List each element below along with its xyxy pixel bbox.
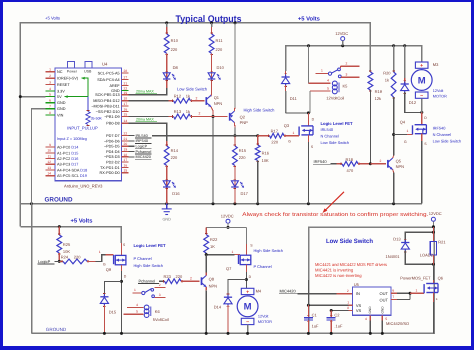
svg-text:1: 1: [49, 68, 51, 72]
pin 22 GND: [121, 90, 128, 92]
svg-text:GND: GND: [380, 306, 384, 314]
svg-text:D14: D14: [214, 305, 222, 310]
svg-text:NPN: NPN: [209, 283, 218, 288]
led D17: [234, 178, 237, 180]
wire Q9 drain to D15: [104, 281, 121, 296]
svg-text:A4-PC4-SDA D18: A4-PC4-SDA D18: [57, 168, 87, 172]
svg-text:IRF540: IRF540: [433, 125, 447, 130]
svg-text:IRF540: IRF540: [314, 159, 328, 164]
svg-text:D11: D11: [290, 96, 298, 101]
wire Q3 source to ground rail: [307, 142, 309, 204]
svg-text:220: 220: [176, 274, 183, 279]
pin 1 NC: [46, 71, 55, 73]
svg-text:Pchannel: Pchannel: [136, 150, 152, 154]
svg-text:MIC4421 and MIC4422 MOS FET dr: MIC4421 and MIC4422 MOS FET drivers: [315, 262, 387, 267]
pin 6 GND: [46, 102, 55, 104]
wire Q9 drain down: [121, 265, 123, 271]
svg-text:1: 1: [293, 131, 295, 135]
svg-text:.1uF: .1uF: [334, 323, 343, 328]
svg-text:RX-PD0-D0: RX-PD0-D0: [100, 171, 120, 175]
svg-text:Q4: Q4: [400, 119, 406, 124]
resistor R12: [172, 99, 174, 102]
svg-text:R22: R22: [210, 237, 218, 242]
svg-text:MIC4420/SO: MIC4420/SO: [386, 321, 409, 326]
svg-text:IRL540: IRL540: [321, 127, 334, 132]
wire R18 to Q5 base: [358, 163, 370, 165]
svg-text:N Channel: N Channel: [433, 132, 452, 137]
pin 19 PD4-D4: [121, 151, 128, 153]
resistor R22: [205, 227, 207, 234]
pin 5 5V: [46, 96, 55, 98]
svg-text:+5 Volts: +5 Volts: [45, 15, 60, 20]
wire R12 to Q1 base: [191, 100, 205, 102]
svg-text:4: 4: [365, 317, 367, 321]
svg-text:G: G: [288, 139, 291, 143]
wire R25 to LogicP node: [58, 253, 60, 261]
svg-text:12VDC: 12VDC: [335, 31, 348, 36]
connector USB tab: [85, 61, 92, 68]
svg-text:12VoltCoil: 12VoltCoil: [326, 96, 344, 101]
svg-text:16: 16: [124, 108, 128, 112]
svg-text:4: 4: [49, 87, 51, 91]
node net label IRF540: [128, 140, 134, 142]
wire Q7 drain to D14: [228, 280, 246, 298]
svg-text:1N4001: 1N4001: [386, 254, 401, 259]
svg-text:5: 5: [49, 92, 51, 96]
svg-text:~PD6-D6: ~PD6-D6: [104, 139, 120, 143]
svg-text:SCL-PC5-A5: SCL-PC5-A5: [98, 71, 120, 75]
svg-text:R21: R21: [438, 240, 446, 245]
wire IRL540 net to R17 and Q3 gate: [152, 135, 258, 137]
wire Q7 drain down: [245, 265, 247, 272]
pin 3 RESET: [46, 84, 55, 86]
wire ground rail: [20, 203, 422, 205]
svg-text:Q1: Q1: [214, 95, 220, 100]
svg-text:R24: R24: [61, 254, 69, 259]
wire R23 to Q8 base: [181, 280, 200, 282]
svg-text:15: 15: [124, 113, 128, 117]
svg-text:M3: M3: [433, 62, 439, 67]
resistor R17: [258, 135, 270, 137]
pin 10 A1-PC1 D15: [46, 152, 55, 154]
pin 21 AREF: [121, 85, 128, 87]
svg-text:R10: R10: [171, 38, 179, 43]
svg-text:GND: GND: [368, 306, 372, 314]
svg-text:AREF: AREF: [109, 84, 120, 88]
svg-text:A2-PC2 D16: A2-PC2 D16: [57, 157, 78, 161]
svg-text:1: 1: [407, 129, 409, 133]
svg-text:High Side Switch: High Side Switch: [254, 248, 283, 253]
svg-text:10: 10: [47, 149, 51, 153]
wire D12 anode to Q4 drain node: [405, 92, 422, 112]
svg-text:18: 18: [124, 97, 128, 101]
wire Q4 gate: [394, 134, 407, 136]
svg-text:MOTOR: MOTOR: [258, 320, 272, 324]
pin 15 ~PB1-D9: [121, 116, 128, 118]
wire arduino gnd pin7 to ground rail: [32, 109, 46, 204]
svg-text:M: M: [418, 75, 426, 86]
svg-text:Low Side Switch: Low Side Switch: [433, 139, 462, 144]
svg-text:12Volt: 12Volt: [258, 314, 270, 318]
svg-text:SCK-PB5-D13: SCK-PB5-D13: [95, 93, 119, 97]
node net label MIC4420: [128, 156, 134, 158]
svg-text:19: 19: [124, 91, 128, 95]
svg-text:+5 Volts: +5 Volts: [71, 218, 93, 225]
svg-text:IRL540: IRL540: [136, 134, 148, 138]
transistor Q5: [388, 158, 393, 170]
svg-text:Q6: Q6: [438, 276, 444, 281]
svg-text:220: 220: [216, 47, 223, 52]
svg-text:1: 1: [347, 300, 349, 304]
svg-text:20ma MAX: 20ma MAX: [136, 89, 154, 93]
svg-text:6: 6: [392, 289, 394, 293]
wire MIC4420 to U5 IN: [298, 293, 337, 295]
wire +5V bottom-left rail: [20, 227, 121, 243]
wire R11 top: [211, 23, 213, 27]
svg-text:Arduino_UNO_REV3: Arduino_UNO_REV3: [64, 183, 103, 188]
svg-text:Q7: Q7: [226, 266, 232, 271]
svg-text:GROUND: GROUND: [46, 327, 67, 332]
wire R15 to D17: [234, 166, 236, 204]
svg-text:~MOSI-PB3-D11: ~MOSI-PB3-D11: [91, 104, 119, 108]
svg-text:Q9: Q9: [106, 267, 112, 272]
svg-text:Input Z = 100Meg: Input Z = 100Meg: [57, 137, 87, 141]
svg-text:High Side Switch: High Side Switch: [134, 263, 163, 268]
svg-text:Pchannel: Pchannel: [139, 278, 156, 283]
svg-text:12Volt: 12Volt: [433, 89, 445, 93]
svg-text:IRF540: IRF540: [136, 139, 148, 143]
pin 18 MISO-PB4-D12: [121, 100, 128, 102]
pin 15 RX-PD0-D0: [121, 172, 128, 174]
svg-text:M: M: [244, 302, 252, 313]
svg-text:3: 3: [159, 293, 161, 297]
wire D13 net to D8: [128, 88, 166, 95]
op-amp U4 Arduino_UNO_REV3 body: [55, 68, 121, 181]
svg-text:3: 3: [49, 80, 51, 84]
wire D10 net to R13: [128, 116, 168, 118]
svg-text:5: 5: [327, 86, 329, 90]
svg-text:−: −: [420, 93, 423, 99]
svg-text:LogicP: LogicP: [38, 259, 51, 264]
svg-text:OUT: OUT: [380, 291, 389, 296]
relay K5 coil: [332, 81, 339, 94]
svg-text:14: 14: [47, 172, 51, 176]
svg-text:Low Side Switch: Low Side Switch: [326, 238, 373, 245]
wire bottom rail ground: [32, 332, 435, 334]
resistor R19: [369, 70, 372, 72]
svg-text:G: G: [404, 140, 407, 144]
svg-text:18: 18: [124, 153, 128, 157]
svg-text:R11: R11: [216, 38, 224, 43]
wire R22 to Q7 gate node: [206, 253, 234, 255]
connector Power tab: [67, 61, 74, 68]
transistor Q8: [202, 275, 207, 287]
wire Q8 collector to gate node: [205, 273, 207, 276]
wire D8 net to R14: [128, 123, 166, 141]
svg-text:PD4-D4: PD4-D4: [106, 150, 120, 154]
svg-text:R15: R15: [239, 148, 247, 153]
svg-text:2: 2: [346, 61, 348, 65]
svg-text:14: 14: [124, 119, 128, 123]
resistor R10: [165, 32, 168, 34]
svg-text:5VoltCoil: 5VoltCoil: [153, 317, 169, 322]
wire U5 OUT pins to Q6 gate: [391, 292, 397, 294]
svg-text:U4: U4: [102, 62, 108, 67]
svg-text:NPN: NPN: [214, 101, 223, 106]
wire M3 minus to Q4 drain: [421, 98, 423, 112]
wire M4 minus to bottom rail: [247, 324, 249, 333]
svg-text:1k: 1k: [385, 78, 389, 83]
svg-text:PD7-D7: PD7-D7: [106, 134, 120, 138]
wire R16 to ground rail: [257, 161, 259, 204]
transistor Q2: [230, 111, 235, 123]
pin 13 A4-PC4-SDA D18: [46, 169, 55, 171]
wire Q2 emitter up to +5V rail: [234, 107, 236, 111]
svg-text:GND: GND: [57, 101, 66, 105]
wire U5 VS pin 8: [331, 310, 348, 312]
node top rail junctions: [165, 21, 168, 24]
svg-text:12VDC: 12VDC: [429, 211, 442, 216]
svg-text:PD2-D2: PD2-D2: [106, 161, 120, 165]
pin 16 ~SS-PB2-D10: [121, 111, 128, 113]
wire D15 anode to bottom rail: [103, 305, 105, 334]
svg-text:6: 6: [49, 99, 51, 103]
svg-text:NC: NC: [57, 70, 63, 74]
resistor R20: [393, 46, 395, 72]
resistor R25: [58, 227, 60, 235]
svg-text:IOREF(+5V): IOREF(+5V): [57, 77, 79, 81]
resistor R23: [159, 280, 165, 282]
wire K5 coil pin 5 return to Q3 drain: [310, 90, 331, 92]
svg-text:+5 Volts: +5 Volts: [298, 15, 320, 22]
svg-text:P Channel: P Channel: [134, 256, 152, 261]
motor M3: [411, 62, 432, 99]
svg-text:~PD5-D5: ~PD5-D5: [104, 145, 120, 149]
svg-text:220: 220: [171, 155, 178, 160]
svg-text:10K: 10K: [262, 158, 269, 163]
svg-text:R23: R23: [164, 274, 172, 279]
relay K6 coil: [127, 307, 143, 309]
svg-text:3.3V: 3.3V: [57, 89, 65, 93]
svg-text:R16: R16: [262, 151, 270, 156]
svg-text:15: 15: [124, 169, 128, 173]
transistor Q3: [307, 113, 309, 126]
wire 12V mid rail: [206, 226, 246, 228]
diode D11: [285, 71, 287, 77]
svg-text:D10: D10: [217, 65, 225, 70]
wire R14 to D16: [166, 166, 168, 204]
svg-text:Low Side Switch: Low Side Switch: [177, 86, 208, 91]
wire D14 anode to bottom rail: [227, 305, 229, 333]
svg-text:2: 2: [196, 96, 198, 100]
svg-text:21: 21: [124, 82, 128, 86]
svg-text:1uF: 1uF: [312, 323, 319, 328]
wire R24 to Q9 gate: [87, 260, 96, 262]
svg-text:1k: 1k: [186, 109, 190, 114]
wire Q5 collector up: [392, 156, 395, 158]
svg-text:D17: D17: [241, 191, 249, 196]
svg-text:LogicP: LogicP: [136, 145, 148, 149]
svg-text:Typical Outputs: Typical Outputs: [176, 14, 242, 25]
svg-text:8: 8: [49, 111, 51, 115]
relay K5 switch: [315, 73, 328, 75]
svg-text:A5-PC5-SCL D19: A5-PC5-SCL D19: [57, 174, 87, 178]
svg-text:A0-PC0 D14: A0-PC0 D14: [57, 146, 78, 150]
capacitor C2: [330, 311, 332, 318]
svg-text:Q3: Q3: [284, 123, 290, 128]
svg-text:3: 3: [346, 72, 348, 76]
svg-text:C1: C1: [312, 313, 318, 318]
svg-text:1K: 1K: [210, 244, 215, 249]
pin 22 PD7-D7: [121, 135, 128, 137]
pin 4 3.3V: [46, 90, 55, 92]
resistor R11: [210, 32, 213, 34]
node net label IRL540: [128, 135, 134, 137]
resistor R21 LOAD2: [432, 227, 434, 242]
svg-text:D16: D16: [172, 191, 180, 196]
svg-text:12: 12: [47, 160, 51, 164]
svg-text:SDA-PC4-A4: SDA-PC4-A4: [97, 78, 119, 82]
resistor R13: [172, 115, 174, 118]
svg-text:USB: USB: [84, 70, 92, 74]
svg-text:8: 8: [347, 306, 349, 310]
svg-text:VIN: VIN: [57, 113, 64, 117]
wire R13 to Q2 base: [191, 116, 228, 118]
node ground rail junctions: [30, 202, 33, 205]
svg-text:1k: 1k: [186, 94, 190, 99]
op-amp U5 MIC4420 driver body: [352, 287, 391, 315]
wire R11 to D10: [211, 53, 213, 92]
wire R19 to Q5 base node: [369, 90, 371, 164]
wire D10 cathode to Q1 collector: [210, 92, 213, 96]
wire Q4 source to ground rail: [421, 141, 423, 204]
svg-text:1: 1: [134, 288, 136, 292]
svg-text:C2: C2: [334, 313, 340, 318]
svg-text:7: 7: [392, 295, 394, 299]
svg-text:NPN: NPN: [396, 164, 405, 169]
svg-text:5: 5: [136, 310, 138, 314]
svg-text:MOTOR: MOTOR: [433, 95, 447, 99]
diode D15: [103, 293, 106, 295]
svg-text:220: 220: [239, 155, 246, 160]
svg-text:PowerMOS_FET: PowerMOS_FET: [400, 276, 431, 281]
wire arduino 5V pin to +5V rail: [20, 96, 45, 98]
svg-text:PNP: PNP: [240, 120, 249, 125]
svg-text:PB0-D8: PB0-D8: [106, 122, 119, 126]
svg-text:13: 13: [47, 166, 51, 170]
wire Q5 emitter to ground rail: [392, 170, 395, 173]
svg-text:2: 2: [190, 276, 192, 280]
svg-text:2: 2: [347, 289, 349, 293]
svg-text:INPUT_PULLUP: INPUT_PULLUP: [67, 125, 98, 130]
svg-text:220: 220: [74, 254, 81, 259]
svg-text:MIC4421 is inverting: MIC4421 is inverting: [315, 268, 354, 273]
resistor R24: [59, 260, 63, 262]
svg-text:20ma MAX: 20ma MAX: [136, 118, 154, 122]
svg-text:LOAD2: LOAD2: [420, 253, 434, 258]
pin 9 A0-PC0 D14: [46, 146, 55, 148]
svg-text:D8: D8: [173, 65, 179, 70]
svg-text:G: G: [103, 262, 106, 266]
pin 28 SCL-PC5-A5: [121, 72, 128, 74]
svg-text:A3-PC3 D17: A3-PC3 D17: [57, 163, 78, 167]
svg-text:Q5: Q5: [396, 158, 402, 163]
node +5V bottom junction R25: [58, 225, 61, 228]
svg-text:A1-PC1 D15: A1-PC1 D15: [57, 151, 78, 155]
svg-text:~SS-PB2-D10: ~SS-PB2-D10: [96, 110, 120, 114]
svg-text:28: 28: [124, 69, 128, 73]
svg-text:+: +: [420, 63, 423, 69]
resistor R16: [257, 136, 259, 145]
capacitor C1: [307, 280, 309, 305]
svg-text:220: 220: [171, 47, 178, 52]
svg-text:Logic Level FET: Logic Level FET: [134, 243, 167, 248]
svg-text:12k: 12k: [375, 96, 381, 101]
svg-text:17: 17: [124, 158, 128, 162]
svg-text:21: 21: [124, 137, 128, 141]
svg-text:R20: R20: [383, 71, 391, 76]
pin 12 A3-PC3 D17: [46, 163, 55, 165]
wire U5 VS pin 1: [308, 304, 348, 306]
transistor Q1: [206, 95, 211, 107]
wire D12 net to R12: [128, 100, 168, 102]
svg-text:N Channel: N Channel: [321, 134, 340, 139]
svg-text:Logic Level FET: Logic Level FET: [321, 121, 354, 126]
wire 12V to K5 coil pin 4: [308, 46, 310, 84]
svg-text:27: 27: [124, 76, 128, 80]
node 12V rail junctions: [307, 44, 310, 47]
node net label Pchannel: [128, 151, 134, 153]
pin 20 ~PD5-D5: [121, 145, 128, 147]
resistor R14: [165, 144, 168, 146]
svg-text:7: 7: [49, 105, 51, 109]
wire IOREF to 5V internal link: [65, 78, 89, 96]
svg-text:22: 22: [124, 132, 128, 136]
svg-text:M4: M4: [256, 289, 262, 294]
pin 2 IOREF(+5V): [46, 77, 55, 79]
svg-text:35-50K: 35-50K: [91, 116, 103, 120]
pin 8 VIN: [46, 114, 55, 116]
svg-text:11: 11: [48, 154, 52, 158]
ground symbol below rail: [166, 204, 168, 209]
wire R10 to D8: [166, 53, 168, 88]
svg-text:GND: GND: [162, 218, 171, 222]
svg-text:5V: 5V: [57, 95, 62, 99]
pin 19 SCK-PB5-D13: [121, 94, 128, 96]
resistor R15: [234, 136, 236, 146]
svg-text:12VDC: 12VDC: [221, 213, 234, 218]
svg-text:1: 1: [99, 250, 101, 254]
node Q2 collector junction: [233, 134, 236, 137]
svg-text:R25: R25: [63, 242, 71, 247]
wire Q1 emitter down: [211, 107, 213, 111]
pin 14 A5-PC5-SCL D19: [46, 175, 55, 177]
wire D11 anode to Q3 drain node: [285, 85, 287, 91]
svg-text:2: 2: [199, 112, 201, 116]
svg-text:MISO-PB4-D12: MISO-PB4-D12: [93, 99, 119, 103]
pin 18 ~PD3-D3: [121, 156, 128, 158]
wire U5 GND pins to bottom rail: [369, 315, 371, 320]
svg-text:TX-PD1-D1: TX-PD1-D1: [100, 166, 120, 170]
pin 11 A2-PC2 D16: [46, 158, 55, 160]
svg-text:GND: GND: [57, 107, 66, 111]
diode D14: [227, 293, 230, 295]
svg-text:K6: K6: [155, 309, 161, 314]
svg-text:19: 19: [124, 148, 128, 152]
svg-text:470: 470: [347, 168, 354, 173]
pin 27 SDA-PC4-A4: [121, 79, 128, 81]
relay K6 switch: [133, 292, 142, 294]
